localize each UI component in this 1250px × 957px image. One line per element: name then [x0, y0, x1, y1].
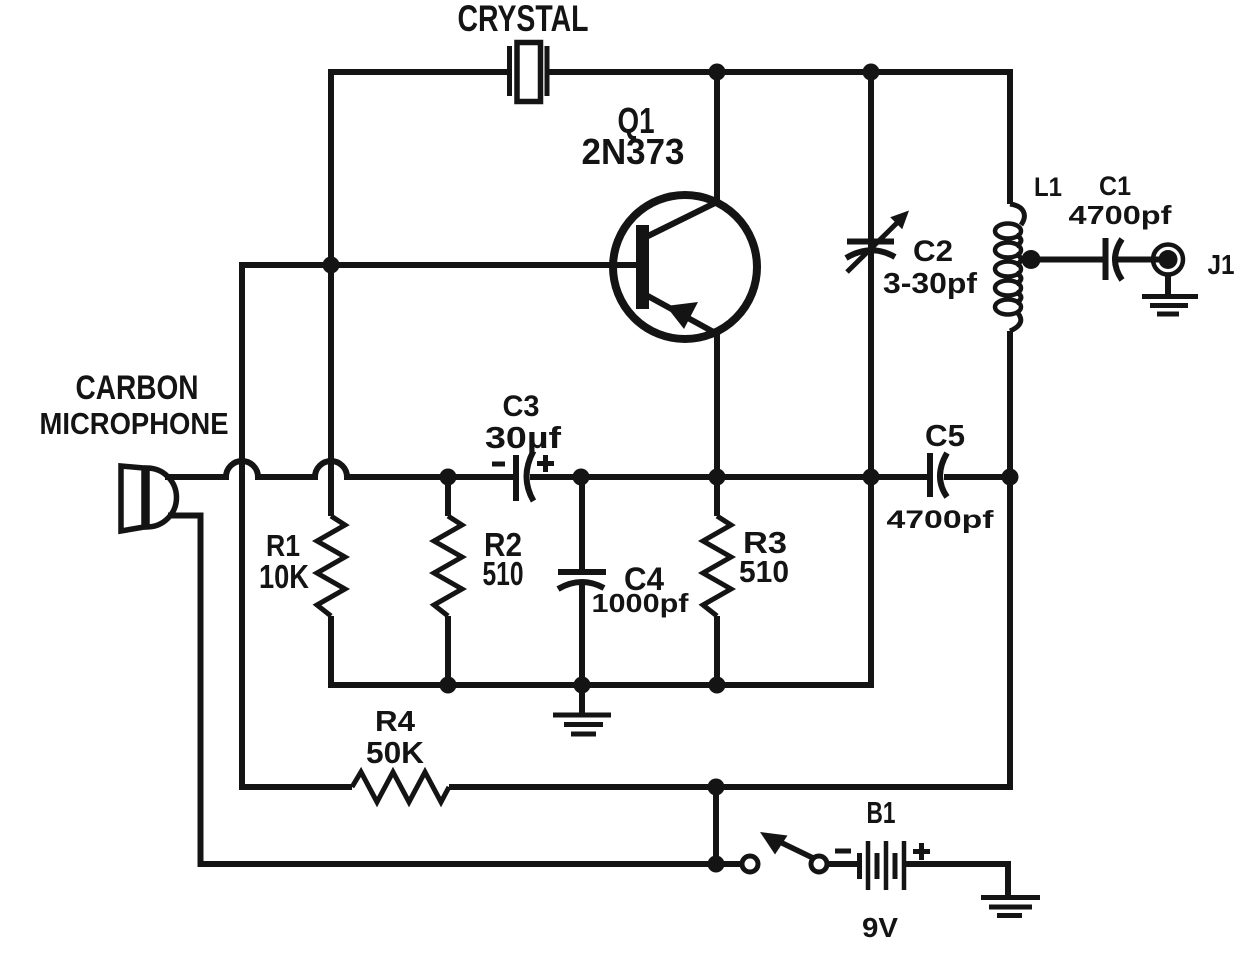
inductor L1 [995, 204, 1024, 331]
svg-text:30µf: 30µf [485, 420, 562, 455]
svg-text:C1: C1 [1099, 171, 1131, 201]
wire top rail y=72 right segment [549, 69, 1010, 75]
node dot (716,864) [708, 856, 725, 873]
connector J1 outer [1153, 245, 1183, 275]
label B1 plus [913, 843, 930, 860]
wire mic output y=477 with hops over x=242 and x=331 [165, 461, 448, 477]
wire left vertical x=331 (crystal to base junction to R1) [328, 69, 334, 516]
carbon microphone dome [147, 468, 177, 527]
node base junction dot (331,265) [323, 257, 340, 274]
wire C5 right to x=1010 [871, 474, 927, 480]
svg-text:510: 510 [483, 555, 524, 592]
label C3 minus sign [492, 462, 505, 467]
svg-text:10K: 10K [259, 558, 309, 595]
wire C4 top x=582 [579, 477, 585, 572]
svg-text:MICROPHONE: MICROPHONE [40, 406, 229, 441]
wire tap to C1 [1031, 257, 1106, 263]
svg-text:50K: 50K [366, 735, 425, 770]
svg-text:510: 510 [739, 554, 789, 589]
svg-text:4700pf: 4700pf [1069, 200, 1172, 230]
svg-text:4700pf: 4700pf [887, 506, 995, 534]
wire C1 to J1 [1118, 257, 1162, 263]
node C2 top dot [863, 64, 880, 81]
wire feedback vertical x=242 down to R4 line [242, 265, 352, 787]
node dot (871,477) [863, 469, 880, 486]
node dot (717,685) [709, 677, 726, 694]
crystal Y1 [510, 43, 548, 102]
node dot (1010,477) C5 right [1002, 469, 1019, 486]
transistor Q1 base bar [636, 225, 649, 309]
wire base line y=265 [242, 262, 641, 265]
svg-text:2N373: 2N373 [582, 131, 685, 172]
svg-text:L1: L1 [1034, 172, 1062, 202]
resistor R1 [317, 516, 345, 616]
battery B1 [827, 841, 904, 890]
wire mic bottom lead [168, 516, 742, 865]
wire C4 bottom to rail [579, 583, 585, 688]
svg-text:C2: C2 [913, 235, 953, 268]
capacitor C2 (variable) vertical wire x=871 [331, 72, 871, 685]
wire R1 bottom to ground rail [328, 616, 334, 688]
node L1 tap dot [1022, 250, 1041, 269]
svg-text:CARBON: CARBON [76, 369, 199, 407]
svg-text:C3: C3 [503, 390, 540, 423]
wire y=477 to C3 [448, 474, 513, 480]
node dot (581,477) [573, 469, 590, 486]
ground symbol below rail [553, 685, 611, 734]
svg-text:CRYSTAL: CRYSTAL [458, 0, 589, 39]
resistor R3 [703, 516, 731, 616]
carbon microphone cone [121, 466, 144, 531]
wire y=477 from C3 to C5 [530, 474, 871, 480]
capacitor C1 plates [1106, 238, 1123, 280]
svg-text:B1: B1 [867, 795, 896, 830]
capacitor C3 plates [516, 451, 534, 501]
wire right vertical x=1010 top [1007, 72, 1010, 204]
wire ground rail y=685 [331, 682, 868, 688]
capacitor C5 plates [930, 453, 947, 497]
transistor Q1 circle [613, 195, 757, 339]
ground symbol at battery [981, 898, 1040, 916]
switch S1 terminal 2 [811, 856, 827, 872]
node dot (716,787) [708, 779, 725, 796]
wire collector vertical x=717 [714, 72, 720, 203]
transistor Q1 collector diagonal [646, 201, 719, 237]
wire top rail y=72 left segment [331, 69, 507, 75]
capacitor C2 plates [846, 242, 895, 259]
label B1 minus [835, 849, 851, 854]
wire x=716 between R4 line and battery line [713, 787, 719, 864]
capacitor C4 plates [558, 572, 606, 589]
transistor Q1 emitter arrow (PNP) [666, 302, 698, 329]
node dot (717,477) [709, 469, 726, 486]
capacitor C2 arrow [847, 211, 909, 273]
node dot (448,685) [440, 677, 457, 694]
svg-text:1000pf: 1000pf [592, 588, 689, 618]
node dot (582,685) [574, 677, 591, 694]
resistor R4 [352, 772, 449, 802]
wire emitter vertical x=717 down to y=477 junction [714, 333, 720, 516]
resistor R2 [434, 516, 462, 616]
node dot (448,477) [440, 469, 457, 486]
wire R3 bottom to ground rail [714, 616, 720, 688]
resistor R2 top wire [445, 477, 451, 516]
label C3 plus sign [537, 455, 554, 472]
svg-text:J1: J1 [1208, 249, 1235, 280]
node collector/top-rail dot [709, 64, 726, 81]
wire battery to ground [904, 864, 1008, 895]
transistor Q1 emitter diagonal [646, 295, 719, 335]
svg-text:3-30pf: 3-30pf [883, 268, 977, 300]
wire right vertical x=1010 below coil [449, 331, 1010, 787]
ground symbol at J1 [1142, 273, 1198, 314]
svg-text:C5: C5 [925, 418, 965, 453]
switch S1 arm with arrow [760, 832, 813, 858]
switch S1 terminal 1 [742, 856, 758, 872]
svg-text:9V: 9V [862, 912, 898, 943]
wire R2 bottom [445, 616, 451, 688]
connector J1 center pin [1159, 250, 1178, 269]
svg-text:R4: R4 [375, 706, 415, 738]
